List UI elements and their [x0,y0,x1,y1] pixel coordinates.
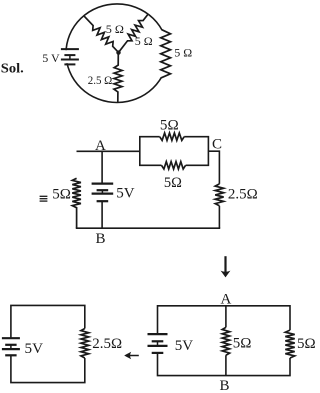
resistor 5Ω (right branch of circle) [161,30,171,78]
wire: node A to battery positive plate [101,151,103,183]
wire: bottom conductor (node B run) [76,227,220,229]
resistor 2.5Ω (center vertical branch) [114,53,122,103]
svg-text:2.5Ω: 2.5Ω [228,187,258,203]
arrow: left (equivalent to) [126,355,139,357]
svg-text:B: B [220,378,230,393]
resistor 5Ω (left branch, with lower lead to bottom wire) [72,178,81,228]
svg-text:Sol.: Sol. [1,61,24,76]
battery 5V (bottom-left circuit) [2,338,20,355]
wire: resistor bottom to bottom conductor [218,206,220,228]
wire: circular conductor loop [66,4,168,103]
resistor 5Ω (box top branch) [160,133,185,140]
svg-text:5Ω: 5Ω [297,336,316,352]
svg-text:5 Ω: 5 Ω [106,22,124,36]
resistor 2.5Ω (right branch C to B) [215,184,223,206]
svg-text:C: C [212,136,222,152]
resistor 2.5Ω (bottom-left right branch) [81,329,89,359]
resistor 5Ω (bottom-right middle branch) [222,327,229,355]
arrow: down (circuit reduction) [224,256,226,272]
battery 5V (middle circuit) [92,184,114,202]
battery 5V (bottom-right circuit) [148,334,168,353]
battery 5V (circle, left side) [61,49,79,64]
svg-text:A: A [95,138,106,154]
svg-text:5 V: 5 V [42,51,60,65]
resistor 5Ω (top-right Y branch) [119,15,148,53]
svg-text:5Ω: 5Ω [52,187,71,203]
svg-text:5V: 5V [175,338,194,354]
svg-text:5 Ω: 5 Ω [174,46,192,60]
svg-text:5Ω: 5Ω [160,118,179,134]
svg-text:B: B [96,231,106,247]
wire: battery negative plate to node B / bottom conductor [101,201,103,228]
svg-text:5V: 5V [25,341,44,357]
wire: bottom-right circuit loop [158,306,291,376]
resistor 5Ω (top-left Y branch) [84,16,118,52]
wire: top conductor from left end to parallel box (node A run) [77,150,140,152]
svg-text:5Ω: 5Ω [164,175,182,191]
symbol: equivalence ≡ [40,195,48,197]
svg-text:2.5 Ω: 2.5 Ω [88,73,113,87]
svg-text:A: A [221,291,232,307]
svg-text:5 Ω: 5 Ω [135,34,153,48]
svg-text:5Ω: 5Ω [233,335,252,351]
wire: middle branch node A to node B [225,306,227,328]
resistor 5Ω (box bottom branch) [162,162,186,169]
resistor 5Ω (bottom-right right branch) [285,330,294,358]
wire: box to node C and down to resistor [208,151,219,184]
node: Y-junction dot [116,50,120,54]
wire: parallel box outline (A to C) [140,137,209,166]
svg-text:5V: 5V [116,185,135,201]
wire: bottom-left circuit loop [11,305,85,382]
svg-text:2.5Ω: 2.5Ω [92,336,122,352]
